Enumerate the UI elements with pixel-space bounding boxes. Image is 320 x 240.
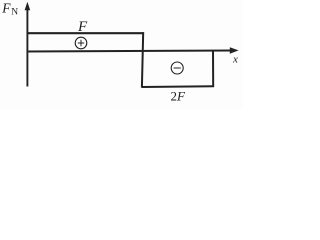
step graph: right edge back to axis (212, 51, 214, 87)
x-axis (27, 51, 232, 52)
svg-text:x: x (232, 54, 238, 66)
y-axis arrowhead (25, 2, 31, 10)
step graph: +F level line (27, 32, 144, 34)
step graph: vertical drop at step (142, 32, 143, 87)
svg-text:F: F (1, 0, 11, 15)
svg-text:N: N (11, 8, 18, 18)
y-axis (F_N axis) (26, 8, 28, 87)
svg-text:F: F (77, 19, 88, 35)
svg-text:2F: 2F (171, 88, 187, 103)
step graph: -2F bottom line (142, 85, 214, 88)
x-axis arrowhead (230, 47, 239, 53)
circled minus symbol in negative region (171, 62, 183, 74)
circled plus symbol in positive region (75, 37, 87, 49)
